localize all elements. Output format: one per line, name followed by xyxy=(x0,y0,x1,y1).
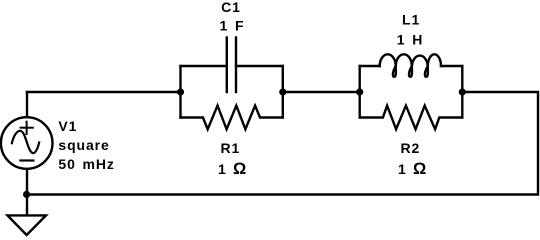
svg-text:1 Ω: 1 Ω xyxy=(398,160,427,178)
svg-text:1 Ω: 1 Ω xyxy=(218,160,247,178)
svg-text:V1: V1 xyxy=(58,118,77,134)
svg-text:R1: R1 xyxy=(221,140,241,156)
svg-text:C1: C1 xyxy=(221,0,241,15)
svg-text:1 F: 1 F xyxy=(220,17,245,33)
svg-text:1 H: 1 H xyxy=(397,32,424,48)
svg-text:R2: R2 xyxy=(401,140,421,156)
svg-text:L1: L1 xyxy=(402,12,420,28)
svg-text:50 mHz: 50 mHz xyxy=(58,156,114,172)
svg-text:square: square xyxy=(58,137,109,153)
